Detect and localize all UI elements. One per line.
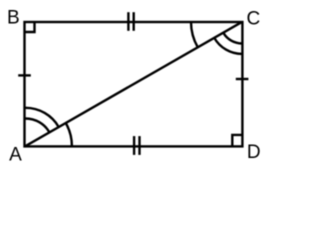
svg-text:A: A bbox=[9, 145, 22, 166]
svg-text:C: C bbox=[247, 9, 261, 30]
svg-text:B: B bbox=[7, 7, 20, 28]
svg-text:D: D bbox=[247, 142, 261, 163]
